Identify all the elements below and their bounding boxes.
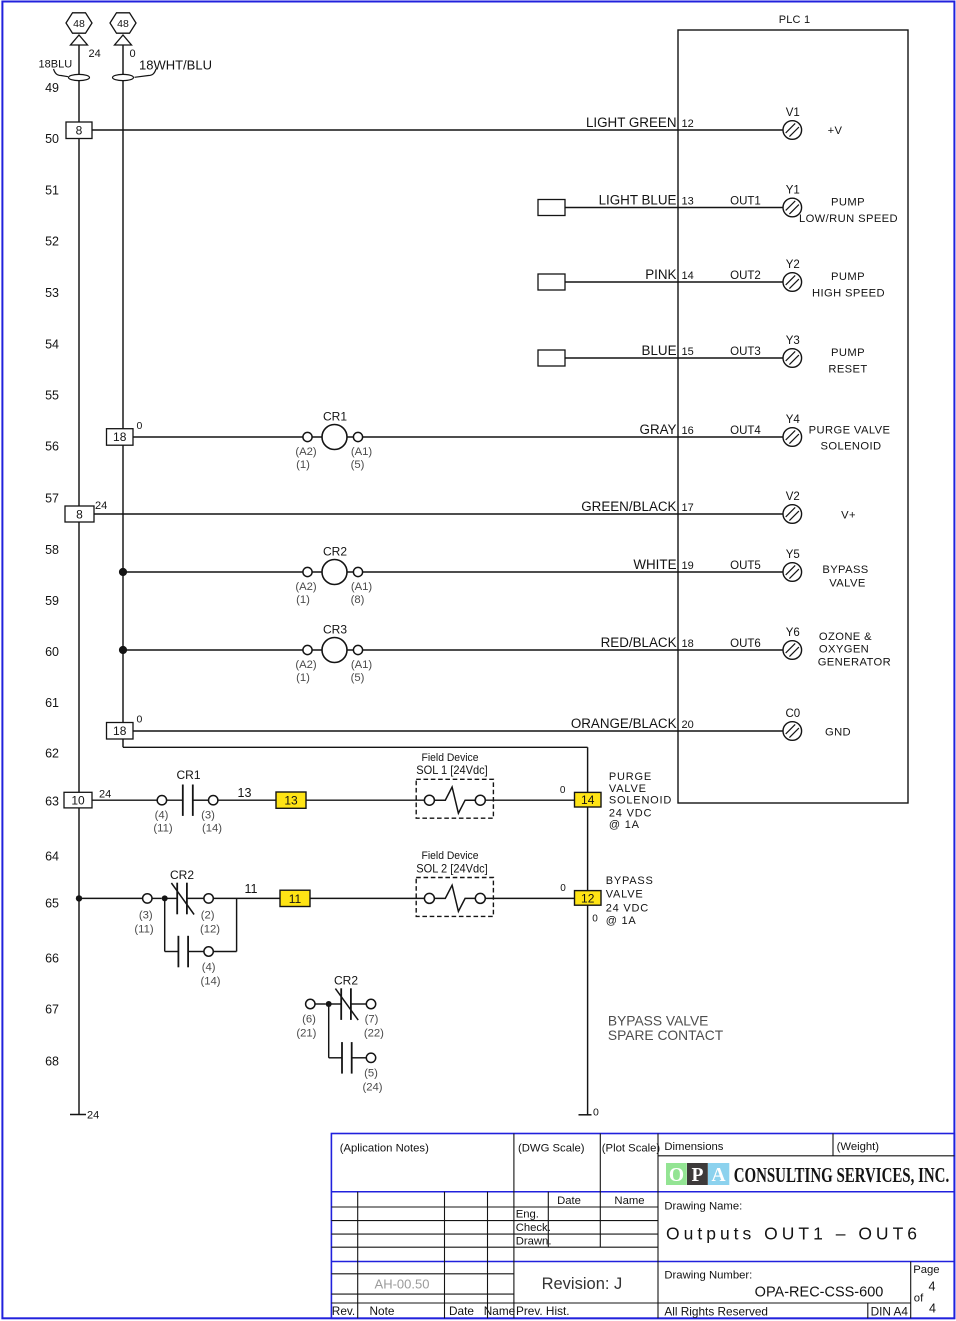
svg-text:CONSULTING SERVICES, INC.: CONSULTING SERVICES, INC.: [734, 1163, 950, 1187]
svg-text:AH-00.50: AH-00.50: [375, 1277, 430, 1292]
svg-text:CR1: CR1: [176, 768, 200, 782]
svg-text:Y6: Y6: [786, 627, 800, 639]
svg-text:LIGHT GREEN: LIGHT GREEN: [586, 115, 677, 130]
svg-text:50: 50: [45, 132, 59, 146]
contact CR1 (NO) rung 63: [157, 796, 166, 805]
PLC terminal V2: [783, 505, 802, 524]
svg-text:OUT2: OUT2: [730, 270, 761, 282]
svg-text:Date: Date: [557, 1195, 581, 1207]
svg-text:60: 60: [45, 645, 59, 659]
svg-text:Date: Date: [449, 1304, 474, 1318]
svg-text:61: 61: [45, 696, 59, 710]
svg-text:DIN A4: DIN A4: [871, 1304, 909, 1318]
svg-text:RESET: RESET: [828, 363, 867, 375]
svg-text:SPARE CONTACT: SPARE CONTACT: [608, 1028, 724, 1043]
svg-text:SOLENOID: SOLENOID: [820, 441, 881, 453]
svg-text:V1: V1: [786, 107, 800, 119]
svg-text:Field Device: Field Device: [422, 850, 479, 862]
svg-text:63: 63: [45, 794, 59, 808]
wire junction rail A / rung 65: [76, 895, 82, 901]
svg-text:PURGE: PURGE: [609, 771, 652, 783]
wire output common vertical: [587, 747, 589, 1114]
svg-text:19: 19: [682, 560, 694, 572]
svg-text:67: 67: [45, 1002, 59, 1016]
svg-text:49: 49: [45, 81, 59, 95]
svg-text:(14): (14): [202, 823, 222, 835]
wire rung 62 (GND): [133, 730, 783, 732]
svg-text:52: 52: [45, 234, 59, 248]
svg-text:Rev.: Rev.: [332, 1304, 355, 1318]
svg-text:Y4: Y4: [786, 414, 801, 426]
svg-text:OUT5: OUT5: [730, 560, 761, 572]
PLC terminal Y5: [783, 563, 802, 582]
wire rung 58 OUT5: [123, 571, 783, 573]
svg-text:68: 68: [45, 1054, 59, 1068]
svg-text:Drawn.: Drawn.: [516, 1236, 552, 1248]
svg-text:Eng.: Eng.: [516, 1209, 539, 1221]
svg-text:0: 0: [560, 785, 566, 796]
svg-text:14: 14: [581, 793, 595, 807]
svg-text:24: 24: [87, 1110, 99, 1122]
wire number box 11 (yellow): [280, 890, 310, 906]
wire junction rail B / rung 60: [119, 646, 127, 654]
wire number box 13 (yellow): [276, 792, 306, 808]
svg-text:BYPASS: BYPASS: [822, 564, 868, 576]
wire junction rail B / rung 58: [119, 568, 127, 576]
svg-text:0: 0: [130, 48, 136, 60]
svg-text:PLC 1: PLC 1: [779, 14, 811, 26]
svg-text:Page: Page: [913, 1264, 939, 1276]
svg-text:V2: V2: [786, 491, 800, 503]
svg-text:+V: +V: [828, 125, 843, 137]
parallel spare contact CR2 (NO) rung 68: [328, 1004, 330, 1058]
svg-text:(Aplication Notes): (Aplication Notes): [340, 1142, 429, 1154]
PLC terminal Y1: [783, 198, 802, 217]
wire rung 51 OUT1: [565, 207, 783, 209]
svg-text:Y1: Y1: [786, 185, 800, 197]
rail A termination tick: [70, 1114, 86, 1116]
svg-text:8: 8: [76, 124, 83, 138]
svg-text:HIGH SPEED: HIGH SPEED: [812, 287, 885, 299]
svg-text:of: of: [914, 1292, 924, 1304]
PLC terminal Y6: [783, 641, 802, 660]
svg-text:C0: C0: [785, 708, 800, 720]
svg-text:(A1): (A1): [351, 446, 373, 458]
svg-text:Drawing Name:: Drawing Name:: [664, 1200, 742, 1212]
PLC terminal C0: [783, 722, 802, 741]
svg-text:11: 11: [245, 882, 258, 896]
svg-text:(A1): (A1): [351, 659, 373, 671]
wire number box 14 (yellow): [575, 792, 602, 807]
wire rung 57 (V+ feed): [94, 513, 783, 515]
wire rung 60 OUT6: [123, 649, 783, 651]
svg-text:12: 12: [581, 891, 595, 905]
company logo A block: [708, 1163, 729, 1185]
wire number box 18 (rung 56): [107, 429, 134, 446]
svg-text:(22): (22): [364, 1028, 384, 1040]
svg-text:VALVE: VALVE: [609, 783, 647, 795]
svg-text:LIGHT BLUE: LIGHT BLUE: [599, 193, 677, 208]
wire rung 52 OUT2: [565, 281, 783, 283]
wire number box 8 (rung 57): [65, 506, 94, 522]
svg-text:24 VDC: 24 VDC: [609, 807, 652, 819]
wire rung 50 (+V feed): [92, 129, 783, 131]
svg-text:18: 18: [113, 430, 127, 444]
svg-text:0: 0: [137, 420, 143, 432]
svg-text:WHITE: WHITE: [633, 557, 676, 572]
svg-text:PUMP: PUMP: [831, 347, 865, 359]
svg-text:Y3: Y3: [786, 335, 800, 347]
svg-text:(2): (2): [201, 910, 215, 922]
svg-text:0: 0: [560, 883, 566, 894]
svg-text:GENERATOR: GENERATOR: [818, 656, 891, 668]
svg-text:(5): (5): [351, 672, 365, 684]
wire number box 10 (rung 63): [64, 792, 92, 808]
relay coil CR2: [303, 567, 312, 576]
wire number box 12 (yellow): [575, 891, 602, 906]
svg-text:11: 11: [289, 892, 302, 906]
unconnected wire stub box: [538, 200, 565, 216]
svg-text:0: 0: [592, 914, 598, 925]
svg-text:RED/BLACK: RED/BLACK: [601, 635, 677, 650]
svg-text:@ 1A: @ 1A: [609, 819, 640, 831]
svg-text:20: 20: [682, 719, 694, 731]
svg-text:(6): (6): [302, 1014, 316, 1026]
svg-text:(24): (24): [362, 1082, 382, 1094]
PLC terminal Y4: [783, 428, 802, 447]
svg-text:Note: Note: [370, 1304, 395, 1318]
svg-text:15: 15: [682, 346, 694, 358]
svg-text:(1): (1): [296, 672, 310, 684]
svg-text:18: 18: [113, 724, 127, 738]
svg-text:Name: Name: [484, 1304, 516, 1318]
svg-text:CR2: CR2: [334, 974, 358, 988]
svg-text:BYPASS: BYPASS: [606, 875, 654, 887]
svg-text:66: 66: [45, 951, 59, 965]
svg-text:(5): (5): [364, 1068, 378, 1080]
svg-text:GRAY: GRAY: [640, 422, 677, 437]
svg-text:Drawing Number:: Drawing Number:: [664, 1270, 752, 1282]
svg-text:(7): (7): [365, 1014, 379, 1026]
wire rung 65 segment c: [310, 897, 425, 899]
svg-text:(A2): (A2): [295, 446, 317, 458]
svg-text:13: 13: [682, 196, 694, 208]
svg-text:OPA-REC-CSS-600: OPA-REC-CSS-600: [755, 1284, 884, 1300]
svg-text:24 VDC: 24 VDC: [606, 903, 649, 915]
svg-text:(3): (3): [201, 810, 215, 822]
svg-text:48: 48: [73, 18, 85, 30]
wire rung 65 segment a: [79, 897, 143, 899]
title block outer border: [331, 1134, 954, 1319]
svg-text:57: 57: [45, 491, 59, 505]
svg-text:(1): (1): [296, 594, 310, 606]
svg-text:LOW/RUN SPEED: LOW/RUN SPEED: [799, 213, 898, 225]
svg-text:ORANGE/BLACK: ORANGE/BLACK: [571, 716, 677, 731]
svg-text:17: 17: [682, 502, 694, 514]
svg-text:@ 1A: @ 1A: [606, 915, 637, 927]
contact CR2 (NC) rung 65: [143, 894, 152, 903]
svg-text:OUT1: OUT1: [730, 196, 761, 208]
relay coil CR3: [303, 645, 312, 654]
svg-text:(1): (1): [296, 459, 310, 471]
wire marker ellipse 18WHT/BLU: [113, 74, 134, 80]
svg-text:13: 13: [284, 794, 298, 808]
svg-text:48: 48: [117, 18, 129, 30]
svg-text:OZONE &: OZONE &: [819, 631, 872, 643]
wire rung 56 OUT4: [133, 436, 783, 438]
svg-text:10: 10: [71, 794, 85, 808]
svg-text:16: 16: [682, 425, 694, 437]
wire rail A (24V): [78, 45, 80, 1115]
svg-text:O: O: [669, 1165, 684, 1186]
svg-text:Revision: J: Revision: J: [542, 1275, 623, 1293]
svg-text:18: 18: [682, 638, 694, 650]
svg-text:GREEN/BLACK: GREEN/BLACK: [581, 499, 676, 514]
svg-text:Prev. Hist.: Prev. Hist.: [516, 1304, 570, 1318]
svg-text:Dimensions: Dimensions: [664, 1141, 723, 1153]
svg-text:54: 54: [45, 337, 59, 351]
svg-text:(A1): (A1): [351, 581, 373, 593]
page number block: [913, 1264, 939, 1316]
svg-text:55: 55: [45, 388, 59, 402]
relay coil CR1: [303, 432, 312, 441]
svg-text:18BLU: 18BLU: [39, 59, 73, 71]
wire number box 18 (rung 62): [107, 723, 134, 740]
svg-text:PUMP: PUMP: [831, 271, 865, 283]
svg-text:(A2): (A2): [295, 581, 317, 593]
svg-text:(21): (21): [296, 1028, 316, 1040]
svg-text:A: A: [712, 1165, 726, 1186]
svg-text:(Weight): (Weight): [837, 1141, 880, 1153]
svg-text:58: 58: [45, 543, 59, 557]
svg-text:(14): (14): [200, 975, 220, 987]
svg-text:(4): (4): [202, 962, 216, 974]
wire marker ellipse 18BLU: [69, 74, 90, 80]
svg-text:59: 59: [45, 594, 59, 608]
svg-text:14: 14: [682, 270, 694, 282]
svg-text:0: 0: [593, 1107, 599, 1119]
wire rung 65 segment b: [213, 897, 280, 899]
svg-text:Y5: Y5: [786, 549, 800, 561]
svg-text:SOLENOID: SOLENOID: [609, 794, 672, 806]
svg-text:Name: Name: [614, 1195, 644, 1207]
svg-text:VALVE: VALVE: [829, 578, 865, 590]
svg-text:CR1: CR1: [323, 410, 347, 424]
svg-text:(11): (11): [153, 823, 172, 835]
svg-text:18WHT/BLU: 18WHT/BLU: [139, 58, 212, 73]
svg-text:12: 12: [682, 118, 694, 130]
parallel contact CR2 (NO) rung 66: [164, 898, 166, 951]
svg-text:BYPASS VALVE: BYPASS VALVE: [608, 1014, 708, 1029]
svg-text:PUMP: PUMP: [831, 196, 865, 208]
svg-text:OUT3: OUT3: [730, 346, 761, 358]
svg-text:53: 53: [45, 286, 59, 300]
svg-text:8: 8: [76, 507, 83, 521]
wire rung 65 segment d: [485, 897, 574, 899]
svg-text:GND: GND: [825, 726, 851, 738]
unconnected wire stub box: [538, 274, 565, 290]
svg-text:4: 4: [929, 1279, 936, 1293]
svg-text:51: 51: [45, 183, 59, 197]
svg-text:13: 13: [238, 786, 252, 800]
svg-text:(12): (12): [200, 923, 220, 935]
svg-text:24: 24: [95, 500, 107, 512]
svg-text:(4): (4): [155, 810, 169, 822]
wire rail B to output common: [123, 746, 588, 748]
wire number box 8 (rung 50): [66, 122, 92, 139]
svg-text:24: 24: [99, 789, 111, 801]
wire rung 63 segment d: [485, 799, 574, 801]
svg-text:SOL 1 [24Vdc]: SOL 1 [24Vdc]: [416, 763, 488, 777]
wire rung 54 OUT3: [565, 357, 783, 359]
company logo P block: [687, 1163, 708, 1185]
off-page source reference 48 (net 0): [110, 13, 136, 33]
svg-text:(DWG Scale): (DWG Scale): [518, 1142, 585, 1154]
svg-text:56: 56: [45, 439, 59, 453]
svg-text:Check.: Check.: [516, 1222, 551, 1234]
svg-text:P: P: [691, 1165, 703, 1186]
svg-text:OXYGEN: OXYGEN: [819, 644, 869, 656]
company logo O block: [666, 1163, 687, 1185]
svg-text:CR2: CR2: [170, 868, 194, 882]
svg-text:(A2): (A2): [295, 659, 317, 671]
svg-text:(Plot Scale): (Plot Scale): [602, 1142, 661, 1154]
svg-text:Y2: Y2: [786, 259, 800, 271]
svg-text:4: 4: [929, 1302, 936, 1316]
title block field labels: [332, 1141, 880, 1318]
svg-text:OUT6: OUT6: [730, 638, 761, 650]
svg-text:PINK: PINK: [645, 267, 676, 282]
spare contact CR2 (NC) rung 67: [306, 999, 315, 1008]
svg-text:VALVE: VALVE: [606, 888, 644, 900]
field device SOL 1 [24Vdc]: [416, 779, 493, 818]
svg-text:(3): (3): [139, 910, 153, 922]
svg-text:CR2: CR2: [323, 545, 347, 559]
ladder line numbers 49-68: [45, 81, 59, 1069]
wire rail B (0V): [122, 45, 124, 747]
svg-text:PURGE VALVE: PURGE VALVE: [809, 425, 891, 437]
output common termination tick: [579, 1114, 592, 1116]
svg-text:65: 65: [45, 896, 59, 910]
svg-text:Field Device: Field Device: [422, 752, 479, 764]
svg-text:CR3: CR3: [323, 623, 347, 637]
svg-text:SOL 2 [24Vdc]: SOL 2 [24Vdc]: [416, 861, 488, 875]
svg-text:64: 64: [45, 849, 59, 863]
svg-text:(11): (11): [134, 923, 153, 935]
svg-text:0: 0: [137, 714, 143, 726]
PLC 1 module box: [678, 30, 908, 803]
off-page source reference 48 (net 24): [66, 13, 92, 33]
PLC terminal Y2: [783, 273, 802, 292]
svg-text:V+: V+: [841, 509, 856, 521]
title block major horizontal dividers: [331, 1191, 954, 1193]
svg-text:24: 24: [89, 48, 101, 60]
wire rung 63 segment a: [92, 799, 157, 801]
svg-text:(8): (8): [351, 594, 365, 606]
svg-text:All Rights Reserved: All Rights Reserved: [664, 1304, 768, 1318]
wire rung 63 segment b: [218, 799, 276, 801]
svg-text:(5): (5): [351, 459, 365, 471]
field device SOL 2 [24Vdc]: [416, 878, 493, 917]
svg-text:BLUE: BLUE: [642, 343, 677, 358]
PLC terminal V1: [783, 121, 802, 140]
wire rung 63 segment c: [306, 799, 425, 801]
svg-text:62: 62: [45, 746, 59, 760]
svg-text:OUT4: OUT4: [730, 425, 761, 437]
PLC terminal Y3: [783, 349, 802, 368]
unconnected wire stub box: [538, 350, 565, 366]
title block internal lines: [331, 1134, 954, 1319]
